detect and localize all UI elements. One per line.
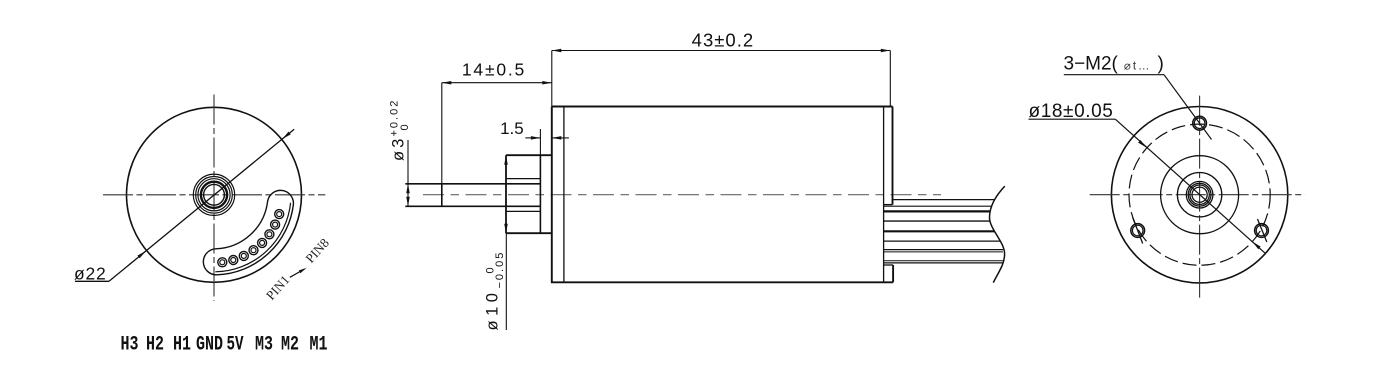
middle view centerline: [423, 194, 941, 196]
svg-text:ø10: ø10: [484, 289, 502, 331]
svg-text:3−M2(⌀t…): 3−M2(⌀t…): [1064, 53, 1164, 74]
svg-text:5V: 5V: [227, 334, 244, 357]
front face circle: [1161, 156, 1239, 234]
dimension 43±0.2: [552, 51, 891, 107]
svg-text:ø18±0.05: ø18±0.05: [1029, 101, 1114, 122]
svg-text:M3: M3: [255, 334, 273, 357]
left view vertical centerline: [213, 95, 215, 301]
motor body outline: [552, 107, 893, 283]
thread line lower-left hole: [1133, 218, 1143, 244]
inner shaft section lines: [506, 179, 540, 212]
boss step line (1.5): [539, 155, 541, 233]
cable break curve: [990, 186, 1005, 283]
right view vertical centerline: [1199, 96, 1201, 299]
PIN1-PIN8 arrow: [290, 269, 305, 277]
svg-text:PIN8: PIN8: [302, 235, 332, 265]
leader 3-M2: [1064, 75, 1212, 140]
svg-text:−0.05: −0.05: [494, 251, 506, 289]
cable exit notch top: [884, 204, 893, 206]
svg-text:H1: H1: [173, 334, 191, 357]
screw holes 3-M2: [1193, 116, 1207, 130]
leader ø18±0.05: [1029, 119, 1265, 253]
right view horizontal centerline: [1090, 194, 1305, 196]
svg-text:14±0.5: 14±0.5: [462, 60, 526, 80]
dimension 14±0.5: [442, 83, 552, 184]
shaft hub concentric circles: [193, 174, 234, 215]
body inner left line: [563, 107, 565, 283]
svg-text:ø3: ø3: [390, 136, 408, 161]
bolt circle ø18 dashed: [1129, 124, 1270, 265]
svg-text:PIN1: PIN1: [263, 272, 293, 302]
svg-text:H3: H3: [121, 334, 139, 357]
svg-text:0: 0: [399, 124, 411, 130]
boss ø10 outline: [506, 155, 552, 233]
svg-text:GND: GND: [196, 334, 223, 357]
shaft ø3 outline: [405, 184, 540, 207]
left view outer circle (motor rear, ø22): [127, 107, 302, 282]
svg-text:1.5: 1.5: [500, 119, 524, 138]
ribbon cable: [884, 200, 1003, 263]
dimension ø3 +0.02/0: [407, 140, 409, 206]
dimension ø10 0/-0.05: [505, 233, 507, 330]
connector crescent outline: [203, 190, 293, 274]
connector rim line: [215, 203, 290, 272]
dimension 1.5: [525, 129, 569, 155]
cable break mask: [990, 186, 1041, 283]
left view horizontal centerline: [103, 194, 325, 196]
dimension leader ø22: [75, 129, 294, 281]
svg-text:M1: M1: [310, 334, 328, 357]
hub circle: [1177, 173, 1221, 217]
svg-text:ø22: ø22: [74, 263, 107, 283]
svg-text:43±0.2: 43±0.2: [692, 30, 754, 51]
svg-text:M2: M2: [281, 334, 299, 357]
svg-text:H2: H2: [146, 334, 164, 357]
body inner right line: [883, 107, 885, 283]
cable exit notch bottom: [884, 264, 894, 266]
connector pins PIN1..PIN8: [218, 258, 227, 267]
bearing rings: [1186, 181, 1213, 208]
right view outer circle: [1111, 107, 1287, 283]
thread line lower-right hole: [1258, 219, 1267, 242]
